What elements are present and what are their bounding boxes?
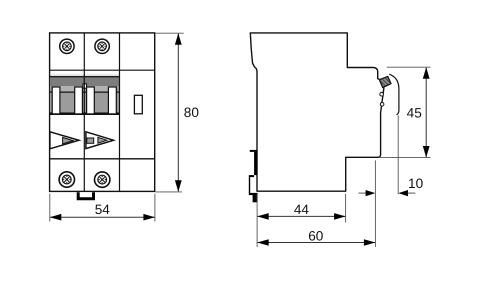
- svg-text:54: 54: [95, 202, 111, 217]
- svg-text:45: 45: [407, 105, 422, 120]
- svg-text:60: 60: [308, 229, 324, 244]
- svg-text:10: 10: [408, 176, 424, 191]
- svg-text:80: 80: [184, 105, 200, 120]
- svg-text:44: 44: [294, 202, 310, 217]
